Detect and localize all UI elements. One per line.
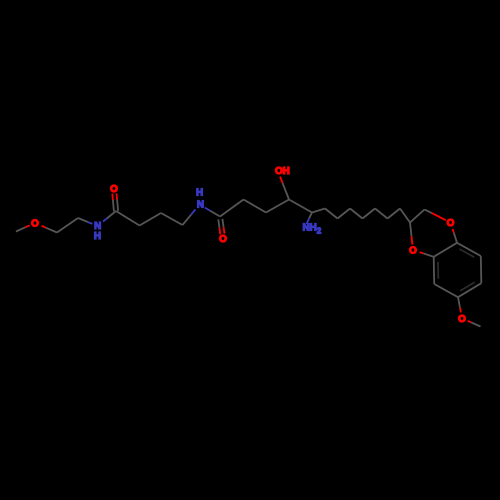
bond C6-O6 (aryl ether)	[458, 297, 461, 312]
bond chain c3	[338, 209, 351, 219]
bond C3-C2 dioxane	[410, 210, 425, 223]
benzene inner double C7=C6	[460, 282, 475, 291]
bond chain-C3 (dioxane)	[400, 209, 410, 223]
bond O1-C (ether)	[42, 226, 57, 233]
svg-text:O: O	[110, 184, 118, 195]
bond CH2-CH2 mid	[140, 213, 162, 226]
svg-text:O: O	[447, 218, 455, 229]
benzene bond C7-C6	[458, 283, 481, 297]
bond chain c6	[375, 209, 388, 219]
benzene bond C8a-C8	[457, 243, 481, 256]
bond C3-O5 (dioxane ether)	[410, 223, 412, 245]
svg-text:O: O	[409, 246, 417, 257]
bond C1-CH2	[116, 211, 140, 226]
benzene inner double C5=C4a	[437, 262, 439, 279]
bond N2-C2 (amide)	[205, 208, 220, 217]
bond CH3-O1 (methoxy)	[16, 225, 30, 231]
bond CH(OH)-CH(NH2)	[289, 200, 312, 213]
bond C2-CH2	[220, 200, 244, 217]
bond chain c2	[325, 209, 338, 219]
svg-text:N: N	[197, 200, 204, 211]
bond CH2-CH2	[57, 218, 78, 233]
bond chain c1	[312, 209, 325, 213]
bond N1-C1 (amide)	[103, 211, 116, 222]
svg-text:H: H	[94, 231, 101, 242]
bond C2-O4 (dioxane ether)	[425, 210, 446, 221]
svg-text:N: N	[94, 221, 101, 232]
benzene bond C5-C4a	[433, 257, 436, 284]
double bond C2=O3 (carbonyl)	[218, 219, 224, 235]
svg-text:O: O	[219, 234, 227, 245]
bond CH2-N1	[78, 218, 92, 224]
benzene inner double C8a=C8	[460, 249, 475, 257]
bond C-OH (hydroxyl)	[280, 177, 289, 200]
svg-text:O: O	[31, 219, 39, 230]
bond CH2-CH(OH) chain	[244, 200, 267, 213]
svg-text:H: H	[196, 188, 203, 199]
bond chain	[266, 200, 289, 213]
bond chain c7	[388, 209, 401, 219]
bond CH2-N2	[183, 209, 196, 225]
svg-text:OH: OH	[275, 166, 290, 177]
benzene bond C6-C5	[434, 284, 458, 297]
bond O5-C4a (aryl ether)	[420, 252, 434, 257]
benzene bond C4a-C8a	[434, 243, 457, 257]
bond O6-CH3 (methoxy)	[468, 321, 481, 327]
bond CH2-CH2 mid2	[161, 213, 183, 225]
svg-text:O: O	[458, 314, 466, 325]
bond O4-C8a (aryl ether)	[453, 229, 457, 243]
benzene bond C8-C7	[480, 256, 483, 283]
bond C-NH2 (amine)	[307, 213, 313, 225]
bond chain c5	[363, 209, 376, 219]
double bond C1=O2 (carbonyl)	[112, 193, 118, 211]
bond chain c4	[350, 209, 363, 219]
